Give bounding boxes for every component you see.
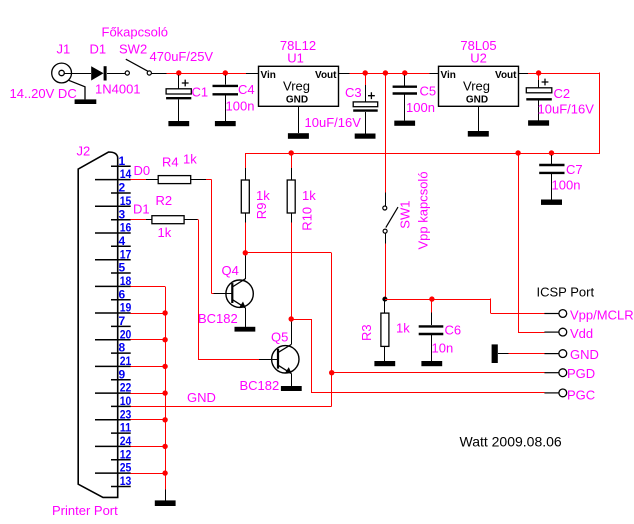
capacitor C1 470uF/25V — [178, 75, 180, 89]
wire: rail to R10 — [291, 155, 293, 168]
pin 21 (J2) — [95, 365, 131, 367]
svg-text:13: 13 — [120, 474, 132, 488]
svg-text:24: 24 — [120, 434, 132, 448]
junction C5 — [402, 70, 407, 75]
svg-text:PGD: PGD — [567, 366, 595, 381]
svg-text:C7: C7 — [566, 162, 583, 177]
svg-text:C4: C4 — [238, 82, 255, 97]
svg-text:1k: 1k — [396, 321, 410, 336]
pin 9 (J2) — [111, 379, 131, 381]
pin 16 (J2) — [95, 232, 131, 234]
svg-text:Q5: Q5 — [271, 329, 288, 344]
wire: ICSP GND — [509, 353, 545, 355]
svg-text:1k: 1k — [183, 151, 197, 166]
wire: Vdd from 5V rail down — [518, 153, 520, 332]
node GND pin — [544, 353, 558, 355]
capacitor C4 100n — [225, 75, 227, 85]
op-amp: voltage regulator U1 78L12 — [259, 66, 339, 106]
ground (C1) — [168, 121, 189, 126]
pin 17 (J2) — [95, 259, 131, 261]
svg-text:10uF/16V: 10uF/16V — [538, 102, 595, 117]
svg-text:Vout: Vout — [495, 70, 517, 81]
svg-text:D0: D0 — [134, 163, 151, 178]
svg-text:15: 15 — [120, 194, 132, 208]
wire: vertical to GND line — [331, 253, 333, 407]
svg-text:1k: 1k — [158, 225, 172, 240]
svg-text:C1: C1 — [192, 85, 209, 100]
svg-text:1k: 1k — [256, 188, 270, 203]
svg-text:Vdd: Vdd — [570, 326, 593, 341]
wire: pin23 to bus — [131, 419, 165, 421]
resistor R3 1k — [384, 299, 386, 313]
wire: pin19 to bus — [131, 313, 165, 315]
svg-text:12: 12 — [120, 447, 132, 461]
pin 24 (J2) — [95, 445, 131, 447]
pin 11 (J2) — [111, 432, 131, 434]
svg-text:U1: U1 — [287, 50, 304, 65]
switch SW2 (Fokapcsolo) — [125, 71, 129, 75]
capacitor C3 10uF/16V — [365, 75, 367, 85]
svg-text:Vpp/MCLR: Vpp/MCLR — [570, 307, 634, 322]
wire: Q5 collector lead — [291, 322, 293, 345]
pin 19 (J2) — [95, 312, 131, 314]
main input rail (14..20V) — [64, 73, 91, 75]
wire: Vpp corner down — [490, 299, 492, 314]
wire: pin14 to R4 — [131, 179, 147, 181]
wire: ground bus vertical — [165, 286, 167, 489]
svg-text:23: 23 — [120, 407, 132, 421]
wire: rail to R9 — [245, 153, 247, 168]
svg-text:100n: 100n — [406, 100, 435, 115]
svg-text:Vin: Vin — [441, 70, 456, 81]
pin 2 (J2) — [111, 192, 131, 194]
svg-text:R9: R9 — [254, 203, 269, 220]
svg-text:4: 4 — [119, 234, 126, 248]
capacitor C5 100n — [404, 75, 406, 86]
pin 13 (J2) — [111, 486, 131, 488]
pin 10 (J2) — [111, 405, 131, 407]
wire: PGC line — [312, 392, 545, 394]
svg-text:C3: C3 — [345, 85, 362, 100]
svg-text:10uF/16V: 10uF/16V — [305, 115, 362, 130]
svg-text:C2: C2 — [554, 86, 571, 101]
svg-text:8: 8 — [119, 341, 126, 355]
svg-text:J2: J2 — [77, 144, 91, 159]
wire: pin22 to bus — [131, 393, 165, 395]
svg-text:1N4001: 1N4001 — [95, 82, 141, 97]
svg-text:Főkapcsoló: Főkapcsoló — [102, 25, 168, 40]
node Vpp junction (black) — [382, 297, 387, 302]
svg-text:Vreg: Vreg — [283, 79, 310, 94]
svg-text:SW1: SW1 — [398, 201, 413, 229]
svg-text:5: 5 — [119, 261, 126, 275]
svg-text:D1: D1 — [90, 42, 107, 57]
pin 20 (J2) — [95, 339, 131, 341]
ground (C2) — [528, 120, 549, 125]
wire: pin21 to bus — [131, 366, 165, 368]
junction R9/Q4 — [243, 250, 248, 255]
ground (C5) — [394, 121, 415, 126]
connector J2 (DB25) outline — [78, 152, 118, 497]
ground (J2 bus) — [165, 489, 167, 500]
junction C7 — [549, 150, 554, 155]
diode D1 1N4001 — [91, 66, 103, 80]
ground (Q4) — [235, 327, 256, 332]
resistor R4 1k — [158, 176, 191, 184]
svg-text:Vreg: Vreg — [463, 79, 490, 94]
svg-text:10n: 10n — [432, 340, 454, 355]
junction bus pin22 — [162, 390, 167, 395]
svg-text:2: 2 — [119, 181, 126, 195]
svg-text:R3: R3 — [359, 324, 374, 341]
node PGC pin — [544, 392, 558, 394]
svg-text:SW2: SW2 — [119, 42, 147, 57]
svg-text:21: 21 — [120, 354, 132, 368]
pin 8 (J2) — [111, 352, 131, 354]
svg-text:470uF/25V: 470uF/25V — [150, 49, 214, 64]
svg-text:BC182: BC182 — [240, 378, 280, 393]
connector J1 — [52, 63, 72, 83]
wire: 12V rail — [339, 73, 350, 75]
wire: 5V right edge down — [599, 72, 601, 153]
pin 22 (J2) — [95, 392, 131, 394]
ground (C3) — [355, 134, 376, 139]
pin 23 (J2) — [95, 419, 131, 421]
wire: Q4 collector lead — [245, 255, 247, 278]
svg-text:Vpp kapcsoló: Vpp kapcsoló — [416, 171, 431, 249]
ground (U1) — [298, 106, 300, 133]
svg-text:22: 22 — [120, 381, 132, 395]
pin 5 (J2) — [111, 272, 131, 274]
node PGD pin — [544, 372, 558, 374]
svg-text:D1: D1 — [133, 202, 150, 217]
junction bus pin20 — [162, 337, 167, 342]
svg-text:C5: C5 — [420, 84, 437, 99]
junction C4 — [223, 70, 228, 75]
ground (ICSP, sideways) — [492, 344, 498, 363]
pin 12 (J2) — [111, 459, 131, 461]
svg-text:14: 14 — [120, 167, 132, 181]
svg-text:25: 25 — [120, 461, 132, 475]
svg-text:14..20V DC: 14..20V DC — [10, 86, 77, 101]
pin 6 (J2) — [111, 299, 131, 301]
capacitor C2 10uF/16V — [538, 75, 540, 80]
ground (C6) — [421, 361, 442, 366]
capacitor C7 100n — [551, 155, 553, 164]
node Vpp/MCLR pin — [544, 313, 558, 315]
wire: Vpp to pin — [491, 313, 545, 315]
svg-text:ICSP Port: ICSP Port — [537, 285, 595, 300]
svg-text:GND: GND — [187, 390, 216, 405]
junction SW1 wire — [383, 70, 388, 75]
svg-text:C6: C6 — [445, 322, 462, 337]
svg-text:Watt 2009.08.06: Watt 2009.08.06 — [460, 434, 562, 450]
svg-text:10: 10 — [120, 394, 132, 408]
wire: Q4 collector to PGD vertical — [245, 252, 331, 254]
junction C6 — [429, 296, 434, 301]
svg-text:100n: 100n — [552, 178, 581, 193]
junction bus pin19 — [162, 310, 167, 315]
junction bus pin23 — [162, 417, 167, 422]
ground (Q5) — [281, 386, 302, 391]
svg-text:20: 20 — [120, 327, 132, 341]
svg-text:11: 11 — [120, 421, 132, 435]
junction C3 — [363, 70, 368, 75]
junction bus pin21 — [162, 364, 167, 369]
svg-text:19: 19 — [120, 301, 132, 315]
svg-text:R4: R4 — [162, 154, 179, 169]
svg-text:Q4: Q4 — [222, 263, 239, 278]
svg-text:GND: GND — [286, 95, 308, 106]
wire: 12V down to SW1 — [385, 73, 387, 192]
svg-text:R2: R2 — [156, 193, 173, 208]
wire: 5V output — [519, 73, 529, 75]
wire: pin20 to bus — [131, 339, 165, 341]
pin 15 (J2) — [95, 205, 131, 207]
ground (R3) — [374, 361, 395, 366]
wire: pin3 to R2 — [131, 219, 146, 221]
svg-text:GND: GND — [466, 95, 488, 106]
svg-text:BC182: BC182 — [198, 311, 238, 326]
wire: Vpp horizontal — [385, 299, 491, 301]
svg-text:PGC: PGC — [567, 388, 595, 403]
wire: GND line from pin10 — [131, 406, 332, 408]
op-amp: voltage regulator U2 78L05 — [439, 66, 519, 106]
svg-text:GND: GND — [570, 347, 599, 362]
pin 18 (J2) — [95, 285, 131, 287]
node Vdd pin — [544, 331, 558, 333]
resistor R2 1k — [152, 216, 184, 224]
svg-text:17: 17 — [120, 247, 132, 261]
wire: 5V horizontal rail — [245, 153, 600, 155]
wire: pin24 to bus — [131, 446, 165, 448]
junction C2 — [536, 70, 541, 75]
ground (U2) — [478, 106, 480, 131]
pin 25 (J2) — [95, 472, 131, 474]
ground (J1) — [69, 80, 85, 99]
svg-text:1k: 1k — [302, 188, 316, 203]
svg-text:7: 7 — [119, 314, 126, 328]
svg-text:Vout: Vout — [315, 70, 337, 81]
svg-text:R10: R10 — [300, 207, 315, 231]
wire: R2 output down to Q5 base — [197, 219, 200, 221]
junction C1 — [176, 70, 181, 75]
svg-text:3: 3 — [119, 207, 126, 221]
ground (C7) — [541, 200, 562, 205]
junction Vdd drop — [515, 150, 520, 155]
wire: pin25 to bus — [131, 473, 165, 475]
pin 14 (J2) — [95, 179, 131, 181]
svg-text:Printer Port: Printer Port — [52, 503, 118, 518]
pin 7 (J2) — [111, 325, 131, 327]
wire: Q5 base red — [198, 359, 259, 361]
svg-text:Vin: Vin — [261, 70, 276, 81]
junction R10/Q5 — [289, 316, 294, 321]
junction PGD — [329, 370, 334, 375]
ground (C4) — [215, 121, 236, 126]
pin 4 (J2) — [111, 245, 131, 247]
svg-text:1: 1 — [119, 154, 126, 168]
wire: R4 output down to Q4 base — [206, 179, 212, 181]
capacitor C6 10n — [431, 299, 433, 312]
wire: PGD line — [332, 372, 545, 374]
junction bus pin25 — [162, 470, 167, 475]
pin 3 (J2) — [111, 219, 131, 221]
wire: pin18 to ground bus — [131, 286, 165, 288]
junction bus pin24 — [162, 444, 167, 449]
svg-text:U2: U2 — [470, 50, 487, 65]
svg-text:100n: 100n — [226, 99, 255, 114]
svg-text:9: 9 — [119, 367, 126, 381]
svg-text:18: 18 — [120, 274, 132, 288]
pin 1 (J2) — [111, 165, 131, 167]
junction R10 top — [289, 150, 294, 155]
svg-text:6: 6 — [119, 287, 126, 301]
svg-text:16: 16 — [120, 221, 132, 235]
svg-text:J1: J1 — [57, 42, 71, 57]
